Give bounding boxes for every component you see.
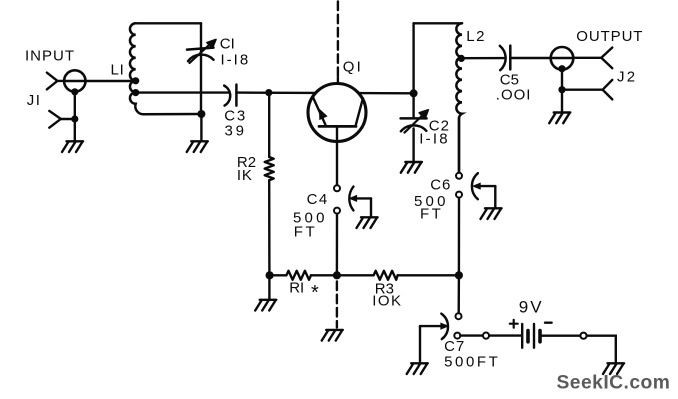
capacitor C2 (variable) xyxy=(401,93,429,161)
ground (C4 shell) xyxy=(357,217,378,228)
wire L2 bottom to C6 xyxy=(458,118,460,173)
ground (shield) xyxy=(322,330,343,341)
ground (R2 leg) xyxy=(255,300,276,311)
connector J2 sleeve contact xyxy=(603,80,613,100)
svg-text:SeekIC.com: SeekIC.com xyxy=(557,373,671,394)
inductor L2 xyxy=(456,23,462,172)
svg-text:J2: J2 xyxy=(617,68,637,85)
wire L2 tap to C5 xyxy=(461,57,503,60)
label battery minus xyxy=(545,322,552,324)
wire Q1 collector to tank node xyxy=(358,92,413,95)
wire R3 to right junction xyxy=(398,274,459,276)
capacitor C7 (feedthrough) xyxy=(420,313,462,363)
svg-text:CI: CI xyxy=(220,36,235,53)
svg-text:FT: FT xyxy=(420,205,443,222)
resistor R3 xyxy=(374,271,398,280)
ground (C7 shell) xyxy=(407,363,428,374)
junction at J1 bottom xyxy=(71,88,78,95)
junction bottom bus center xyxy=(333,271,341,279)
capacitor C4 (feedthrough) xyxy=(334,185,371,217)
wire J1 through-line xyxy=(64,80,85,82)
inductor L1 xyxy=(130,23,201,114)
capacitor C3 xyxy=(224,85,236,106)
junction bottom bus left xyxy=(266,271,274,279)
wire C1 vertical xyxy=(200,23,202,114)
junction bus/R2 xyxy=(265,89,272,96)
svg-text:.OOI: .OOI xyxy=(496,87,532,104)
connector J2 body circle xyxy=(551,47,574,70)
wire R2 bottom to ground xyxy=(268,275,270,299)
junction tank bottom xyxy=(197,110,205,118)
battery connector circle left xyxy=(483,333,489,339)
wire C3 to Q1 emitter xyxy=(236,91,316,94)
battery BT1 9V xyxy=(522,324,540,348)
junction L2 tap xyxy=(458,55,465,62)
svg-text:C4: C4 xyxy=(307,191,329,208)
wire tank top across xyxy=(414,22,462,24)
wire connector to ground corner xyxy=(587,336,616,363)
wire J2 sleeve down xyxy=(561,69,563,90)
wire tank node up xyxy=(412,23,414,93)
label battery plus xyxy=(510,320,518,328)
svg-text:IOK: IOK xyxy=(372,292,402,309)
wire C5 to J2 xyxy=(510,57,551,59)
wire L1 top to C1 xyxy=(136,22,201,24)
ground (C6 shell) xyxy=(481,208,502,219)
wire J2 to ground xyxy=(561,90,563,112)
connector J1 body circle xyxy=(64,70,85,91)
junction at J1 sleeve xyxy=(71,115,78,122)
capacitor C6 (feedthrough) xyxy=(456,173,495,208)
svg-text:FT: FT xyxy=(294,223,317,240)
shield partition (dashed) top xyxy=(337,2,339,78)
resistor R1 xyxy=(286,271,311,280)
junction L1 tap upper xyxy=(132,77,139,84)
wire C7 to battery connector xyxy=(460,334,483,336)
wire battery to connector right xyxy=(542,335,581,337)
svg-text:9V: 9V xyxy=(519,298,544,317)
junction L1 tap lower xyxy=(132,89,139,96)
wire J2 through-line xyxy=(551,57,574,59)
wire C4 to bottom bus xyxy=(336,214,339,276)
wire J1 to ground xyxy=(74,119,76,141)
wire J2 sleeve across xyxy=(562,88,603,90)
capacitor C5 xyxy=(500,46,511,71)
svg-text:I-I8: I-I8 xyxy=(419,130,449,147)
ground (input jack) xyxy=(62,141,83,152)
svg-text:IK: IK xyxy=(237,167,253,184)
ground (input tank) xyxy=(187,141,208,152)
shield partition (dashed) bottom xyxy=(336,282,338,328)
svg-text:OUTPUT: OUTPUT xyxy=(576,28,643,45)
svg-text:LI: LI xyxy=(111,61,125,78)
wire C6 to bottom bus xyxy=(458,198,461,276)
svg-text:RI: RI xyxy=(289,279,304,296)
wire right column to C7 xyxy=(458,275,461,313)
junction at J2 bottom xyxy=(558,65,565,72)
connector J2 tip contact xyxy=(601,48,612,69)
svg-text:L2: L2 xyxy=(466,28,486,45)
wire main bus L1 to C3 xyxy=(136,91,230,93)
svg-text:I-I8: I-I8 xyxy=(221,52,251,69)
wire Q1 base to C4 xyxy=(336,142,338,186)
wire J1 sleeve down xyxy=(74,92,76,119)
junction bottom bus right xyxy=(455,271,463,279)
junction at J2 sleeve xyxy=(558,86,565,93)
wire J1 to L1 tap xyxy=(86,80,136,82)
svg-text:C6: C6 xyxy=(430,176,451,193)
wire connector to battery xyxy=(489,334,520,336)
svg-text:INPUT: INPUT xyxy=(25,48,75,65)
svg-text:QI: QI xyxy=(343,58,363,75)
ground (output jack) xyxy=(549,113,570,124)
wire center junction to R3 xyxy=(337,274,374,276)
battery connector circle right xyxy=(580,333,586,339)
wire J2 to tip contact xyxy=(573,57,601,59)
wire bus to R1 xyxy=(270,274,287,276)
wire R1 to center junction xyxy=(311,274,337,276)
svg-text:39: 39 xyxy=(225,122,247,139)
ground (battery negative) xyxy=(603,363,624,374)
connector J1 tip contact xyxy=(47,73,64,90)
resistor R2 xyxy=(265,95,274,275)
svg-text:*: * xyxy=(311,282,319,304)
wire tank bottom to ground xyxy=(200,114,202,141)
junction collector node xyxy=(410,89,418,97)
svg-text:500FT: 500FT xyxy=(444,353,500,370)
connector J1 sleeve contact xyxy=(49,111,75,128)
capacitor C1 (variable) xyxy=(187,39,216,63)
ground (C2) xyxy=(401,162,422,173)
svg-text:JI: JI xyxy=(27,92,42,109)
transistor Q1 xyxy=(308,78,366,142)
